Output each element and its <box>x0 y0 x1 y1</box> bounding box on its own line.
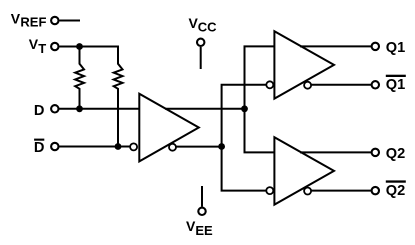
wire U1 true output to node Q <box>165 108 245 110</box>
terminal VREF <box>51 17 58 24</box>
wire D input <box>59 108 140 110</box>
junction VT/R1 <box>76 43 83 50</box>
svg-text:D: D <box>34 103 45 119</box>
terminal Q2 <box>372 149 379 156</box>
junction Dbar/R2 <box>115 143 122 150</box>
label Q1bar <box>386 75 406 93</box>
terminal Q2bar <box>372 187 379 194</box>
svg-text:Q2: Q2 <box>386 146 405 162</box>
terminal D <box>51 105 58 112</box>
bubble U2 inverted output <box>304 82 311 89</box>
svg-text:Q1: Q1 <box>386 77 405 93</box>
wire VT to resistor tops <box>59 47 118 64</box>
label Q2bar <box>386 180 406 198</box>
junction node Qbar <box>218 143 225 150</box>
terminal Q1 <box>372 43 379 50</box>
wire Q1bar output <box>312 84 372 86</box>
wire Q2bar output <box>312 190 372 192</box>
label VREF <box>11 10 47 29</box>
buffer U2 (Q1 driver) <box>274 31 334 98</box>
bubble U1 inverted output <box>169 144 176 151</box>
svg-text:V: V <box>11 10 21 26</box>
wire node Q to output buffers (vertical) <box>245 46 275 152</box>
wire VCC stub <box>200 47 202 69</box>
label Dbar <box>34 139 45 156</box>
svg-text:REF: REF <box>20 14 46 29</box>
bubble U3 inverting input <box>266 187 273 194</box>
terminal Q1bar <box>372 81 379 88</box>
label VEE <box>186 218 213 238</box>
junction node Q <box>241 105 248 112</box>
terminal VEE <box>198 208 205 215</box>
bubble U1 inverting input <box>130 143 137 150</box>
junction D/R1 <box>76 105 83 112</box>
bubble U3 inverted output <box>304 188 311 195</box>
resistor R1 (VT to D) <box>75 47 84 109</box>
wire Q2 output <box>300 151 371 153</box>
svg-text:D: D <box>34 140 45 156</box>
svg-text:Q1: Q1 <box>386 40 405 56</box>
wire VREF stub <box>59 20 80 22</box>
wire Q1 output <box>300 45 371 47</box>
label VCC <box>189 15 218 35</box>
resistor R2 (VT to Dbar) <box>114 47 123 147</box>
label VT <box>29 36 46 56</box>
terminal Dbar <box>51 143 58 150</box>
svg-text:EE: EE <box>195 223 213 238</box>
wire U1 inverted output to node Qbar <box>177 146 222 148</box>
label D <box>34 103 45 119</box>
buffer U1 (input stage) <box>139 94 199 162</box>
bubble U2 inverting input <box>266 81 273 88</box>
label Q2 <box>386 146 405 162</box>
wire node Qbar to output buffers (vertical) <box>222 85 267 191</box>
label Q1 <box>386 40 405 56</box>
svg-text:Q2: Q2 <box>386 183 405 199</box>
buffer U3 (Q2 driver) <box>274 137 334 204</box>
terminal VCC <box>197 39 204 46</box>
terminal VT <box>51 43 58 50</box>
svg-text:T: T <box>38 41 46 56</box>
svg-text:CC: CC <box>198 20 217 35</box>
wire VEE stub <box>201 186 203 207</box>
wire Dbar input <box>59 146 130 148</box>
